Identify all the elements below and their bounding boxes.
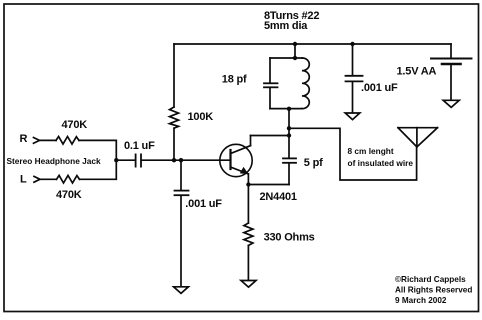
wire antenna feed [289,128,417,180]
battery 1.5V AA [431,44,472,100]
capacitor 5 pf [283,109,296,185]
resistor 330 Ohms [244,185,253,281]
junction dot mix node [114,158,118,162]
junction dot antenna tap [287,126,291,130]
svg-text:of insulated wire: of insulated wire [348,158,414,168]
ground input cap [174,287,189,294]
svg-text:330 Ohms: 330 Ohms [264,232,315,244]
svg-text:©Richard Cappels: ©Richard Cappels [395,275,466,284]
ground bypass cap [345,113,360,120]
capacitor 0.1 uF [116,154,174,166]
copyright text [395,275,472,305]
svg-text:1.5V AA: 1.5V AA [397,66,437,78]
wire R channel to mix node [79,140,116,160]
input chevron L [34,176,40,182]
svg-text:9 March 2002: 9 March 2002 [395,296,447,305]
svg-text:.001 uF: .001 uF [185,198,222,210]
junction dot rail to tank [293,42,297,46]
wire V+ top rail [174,43,451,45]
svg-text:100K: 100K [188,111,214,123]
svg-text:R: R [20,133,28,145]
capacitor .001 uF bypass [346,44,363,113]
wire base node [174,159,231,161]
resistor 100K [170,44,179,160]
svg-text:All Rights Reserved: All Rights Reserved [395,286,472,295]
ground battery [443,100,459,107]
junction dot tank top [293,56,297,60]
svg-text:5mm dia: 5mm dia [264,20,308,32]
antenna [398,128,438,147]
junction dot emitter node [246,182,250,186]
wire tank stub from rail [294,44,296,58]
input chevron R [34,138,40,144]
wire collector to tank node [251,135,290,137]
resistor 470K left channel [40,175,80,183]
resistor 470K right channel [40,137,80,145]
svg-text:8 cm lenght: 8 cm lenght [348,146,394,156]
svg-text:18 pf: 18 pf [222,73,247,85]
svg-text:5 pf: 5 pf [304,157,323,169]
inductor 8 turns coil [270,58,309,109]
transistor 2N4401 [220,136,252,185]
svg-text:0.1 uF: 0.1 uF [124,140,155,152]
svg-text:470K: 470K [56,189,82,201]
svg-text:Stereo Headphone Jack: Stereo Headphone Jack [7,156,101,166]
svg-text:2N4401: 2N4401 [260,191,297,203]
junction dot rail to bypass cap [350,42,354,46]
junction dot tank bottom [287,107,291,111]
ground emitter resistor [241,281,256,288]
junction dot collector tap [287,133,291,137]
capacitor 18 pf [264,58,278,109]
svg-text:L: L [20,174,27,186]
wire L channel to mix node [80,160,117,179]
capacitor .001 uF input [175,160,189,286]
wire emitter to 5pf [248,184,289,186]
svg-text:470K: 470K [62,119,88,131]
junction dot base 100K node [172,158,176,162]
svg-text:.001 uF: .001 uF [361,82,398,94]
junction dot base cap node [179,158,183,162]
